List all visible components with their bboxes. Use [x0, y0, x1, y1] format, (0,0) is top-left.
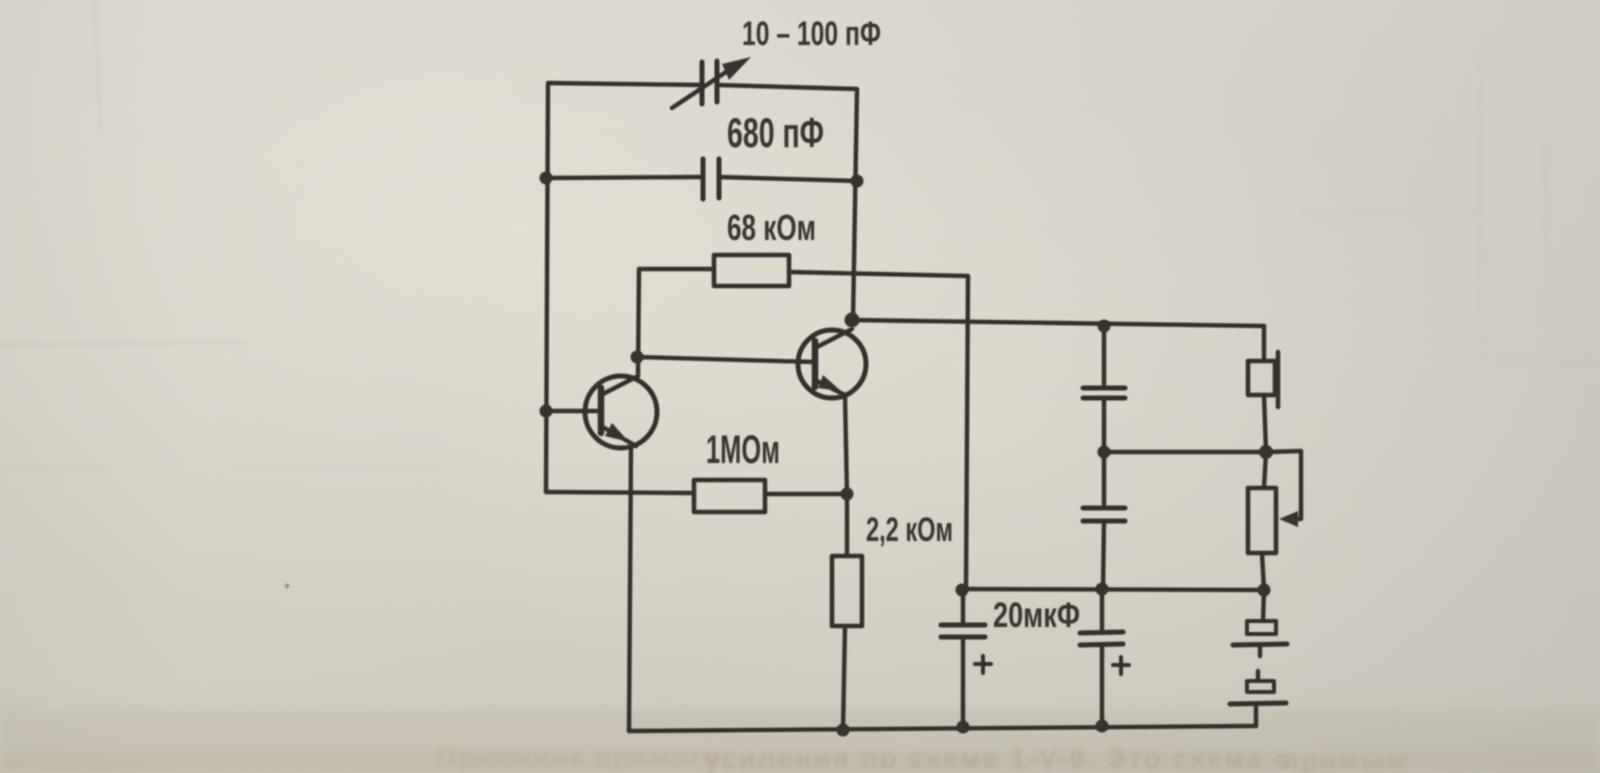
transistor VT2 collector stroke	[815, 329, 852, 348]
earphone BF1 body	[1248, 361, 1275, 395]
earphone BF1: lead from collector rail corner	[1262, 326, 1266, 361]
node dot battery top	[1258, 584, 1271, 597]
node dot VT1 base	[540, 405, 553, 418]
node dot bottom rail R3	[837, 724, 850, 737]
wire R4 bottom to battery node	[1262, 553, 1264, 590]
wire VT1 base from left rail	[546, 409, 601, 413]
node dot C3/C4 row left	[1098, 446, 1111, 459]
wire mid rail	[963, 589, 1264, 590]
faint page creases	[0, 0, 245, 470]
resistor R3 2.2k body	[832, 556, 862, 626]
capacitor C6 plates	[1080, 632, 1123, 633]
wire VT2 emitter down to R3	[845, 396, 847, 556]
node dot mid rail left	[956, 584, 969, 597]
capacitor C4 plates	[1083, 506, 1125, 511]
earphone BF1 membrane bar	[1276, 352, 1281, 407]
wire right-top vertical (C1/C2 right to VT2 collector node)	[853, 90, 857, 320]
capacitor C6 bottom lead	[1100, 645, 1104, 727]
resistor R1 68k body	[714, 255, 789, 286]
battery GB1 cell 1 short plate	[1247, 621, 1276, 634]
capacitor C5 bottom lead	[961, 637, 965, 728]
capacitor C5 plates	[941, 623, 985, 628]
potentiometer R4 lead	[1264, 452, 1266, 488]
wire between C3 and node	[1102, 398, 1106, 452]
wire battery bottom to bottom rail	[1254, 704, 1258, 726]
node dot C3/C4 row right	[1259, 445, 1273, 459]
wire top rail left segment	[548, 83, 702, 85]
wire left vertical rail	[546, 84, 548, 492]
wire C4 to mid rail	[1103, 521, 1104, 589]
wire R1 right then down to mid rail	[789, 272, 968, 589]
node dot mid rail C6	[1096, 583, 1109, 596]
faint crease line mid-left	[230, 466, 1020, 470]
wire R3 bottom to bottom rail	[843, 626, 845, 730]
node dot C3 top	[1098, 320, 1111, 333]
wire bottom rail	[629, 726, 1256, 731]
transistor VT1 emitter stroke with arrow	[601, 426, 636, 446]
wire VT2 base from node A	[637, 357, 815, 362]
paper speck	[285, 584, 290, 589]
battery GB1 inter-cell lead ticks	[1258, 647, 1262, 656]
transistor VT1 base bar	[598, 388, 605, 433]
capacitor C3 plates	[1083, 386, 1125, 391]
wire 1M branch left	[546, 492, 694, 493]
value labels	[706, 15, 1080, 635]
wire 680pF rail left segment	[546, 177, 703, 178]
node dot bottom rail C5	[957, 721, 970, 734]
transistor VT1 collector stroke	[601, 376, 638, 395]
transistor VT1 circle	[585, 376, 657, 448]
transistor VT2 circle	[798, 330, 866, 398]
node dot left 680pF	[540, 172, 553, 185]
node dot VT2 emitter / R2	[841, 488, 854, 501]
wire node to C4	[1102, 452, 1106, 508]
capacitor C5 20uF electrolytic: top lead	[961, 590, 965, 624]
node dot VT2 collector	[845, 313, 860, 328]
reverse-side bleed-through text (bottom)	[436, 742, 1409, 773]
capacitor C5 plus sign	[975, 656, 991, 673]
potentiometer R4 body	[1248, 488, 1276, 553]
capacitor C1 variable arrow	[672, 64, 738, 108]
node dot bottom rail C6	[1096, 720, 1109, 733]
wire node row y452	[1104, 450, 1266, 454]
reverse-side bleed-through ghost schematic (right)	[1302, 60, 1600, 362]
node dot A VT1 collector / VT2 base	[631, 351, 644, 364]
wire collector rail to right	[852, 320, 1264, 326]
wire R2 right to VT2 emitter node	[765, 492, 847, 496]
wire earphone bottom to node	[1264, 395, 1266, 452]
bottom shadow band	[0, 710, 1600, 773]
transistor VT2 base bar	[812, 341, 819, 387]
node dot right 680pF	[851, 175, 864, 188]
wire VT1 emitter vertical to bottom rail	[629, 447, 631, 731]
wire mid cap branch upper	[1102, 326, 1106, 388]
resistor R2 1M body	[694, 480, 765, 512]
wire VT1 collector up to R1 left	[638, 269, 714, 376]
transistor VT2 emitter stroke with arrow	[815, 380, 845, 395]
battery GB1 cell 2 long plate	[1230, 703, 1286, 704]
capacitor C1 10-100pF variable: plates	[700, 62, 705, 104]
capacitor C2 680pF: plates	[701, 159, 706, 199]
capacitor C6 20uF electrolytic: top lead	[1100, 590, 1104, 632]
battery GB1 lead	[1263, 590, 1264, 621]
wire 680pF rail right segment	[719, 177, 857, 181]
battery GB1 cell 1 long plate	[1233, 644, 1287, 645]
capacitor C6 plus sign	[1113, 657, 1129, 674]
battery GB1 cell 2 short plate	[1247, 681, 1274, 692]
wire top rail right segment	[718, 85, 857, 89]
potentiometer R4 wiper feedback wire	[1266, 451, 1301, 519]
